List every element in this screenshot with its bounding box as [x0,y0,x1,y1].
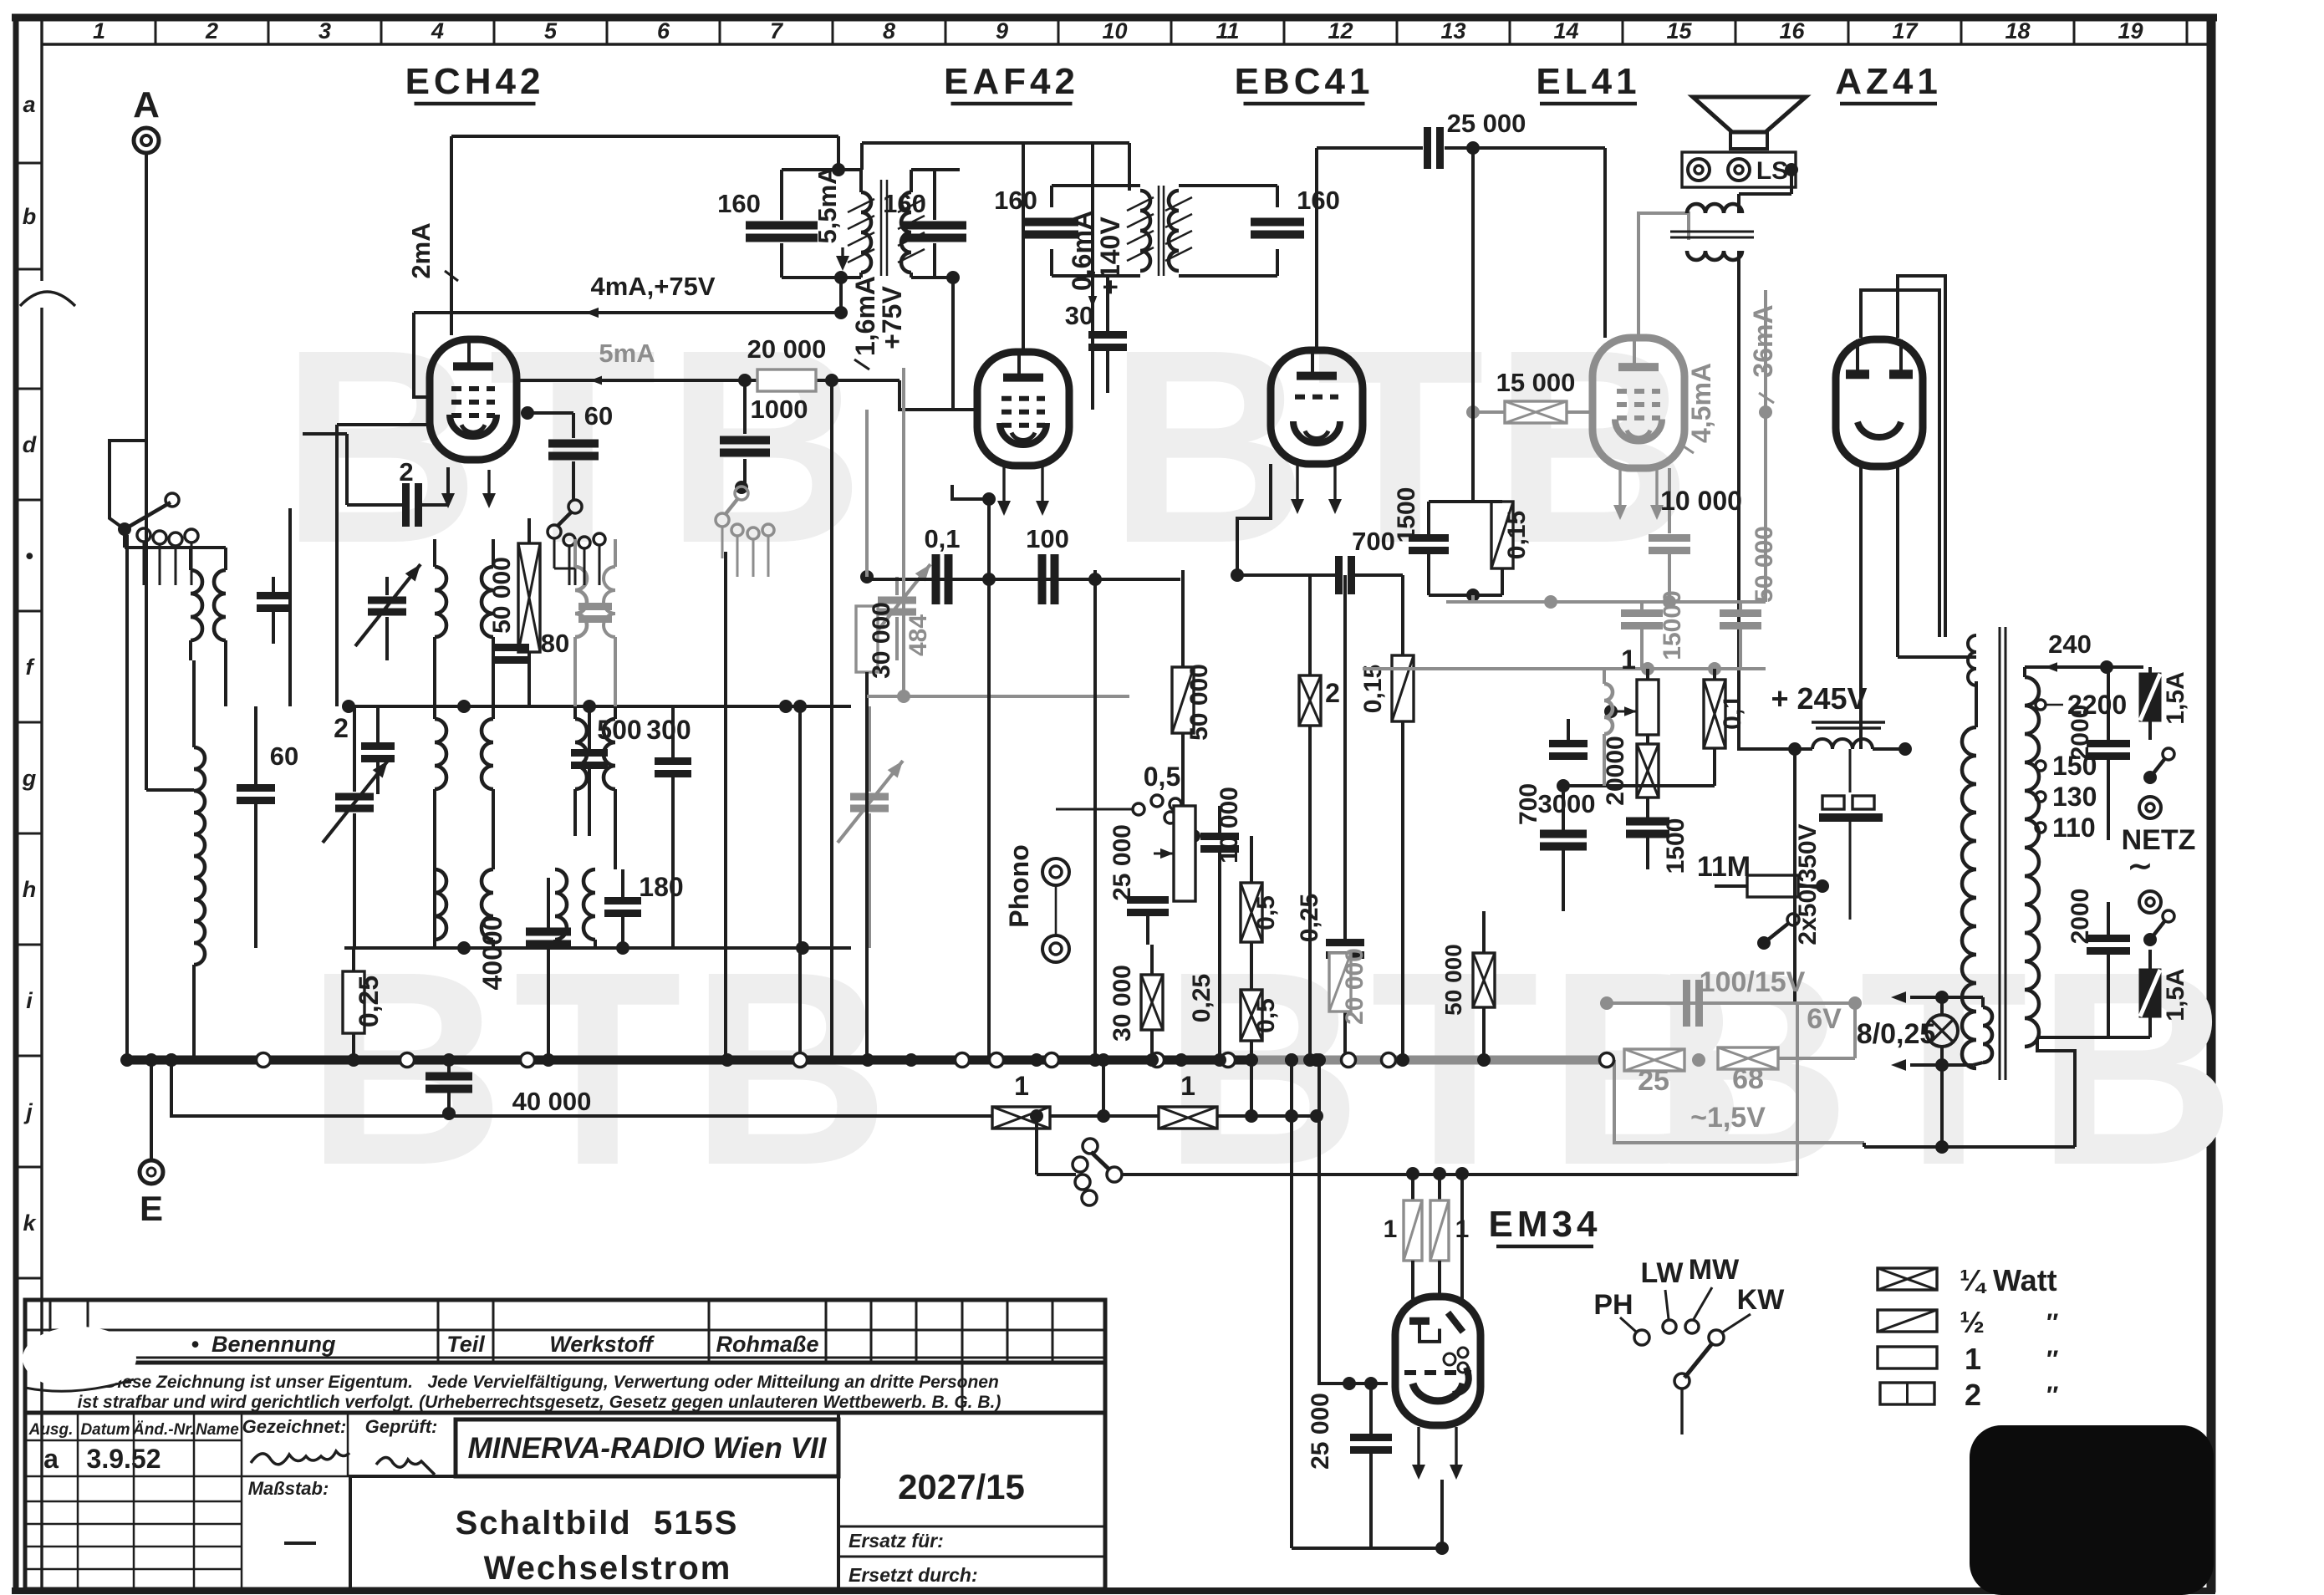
svg-text:Gezeichnet:: Gezeichnet: [242,1416,347,1437]
svg-text:Ersetzt durch:: Ersetzt durch: [849,1564,978,1586]
svg-text:2: 2 [205,18,218,43]
legend 1/2 Watt [1878,1305,2058,1339]
tube EBC41 label [1235,61,1374,104]
capacitor 0,1 [924,524,960,604]
band switch S1c [716,487,774,558]
EM34 feed resistors [1384,1167,1470,1299]
resistor 30000 af [1108,945,1216,1060]
svg-text:0,5: 0,5 [1252,895,1280,930]
svg-text:13: 13 [1440,18,1465,43]
svg-text:9: 9 [996,18,1008,43]
svg-text:d: d [23,432,37,457]
svg-text:A: A [133,84,160,125]
svg-text:E: E [140,1189,163,1228]
svg-text:Änd.-Nr.: Änd.-Nr. [132,1421,195,1439]
svg-text:Geprüft:: Geprüft: [365,1416,438,1437]
wire rail lower-left [344,941,851,955]
bus junction dot [1175,1053,1188,1067]
svg-text:4: 4 [431,18,444,43]
svg-text:5mA: 5mA [599,339,655,368]
capacitor 2000 b [2067,889,2130,1037]
svg-text:4,5mA: 4,5mA [1686,363,1716,443]
svg-text:0,1: 0,1 [1719,695,1746,730]
fuse 1,5A a [2140,667,2189,740]
resistor 68 [1692,1047,1855,1095]
svg-text:h: h [23,877,37,902]
power transformer primary [1962,681,1976,1068]
svg-text:LW: LW [1641,1257,1684,1289]
svg-text:Schaltbild 515S: Schaltbild 515S [456,1505,739,1541]
resistor 0,5 a [1241,836,1280,942]
svg-text:30: 30 [1065,301,1093,330]
capacitor 100/15V [1687,966,1806,1027]
capacitor 700 coupling [1231,527,1403,594]
resistor 50000 em [1440,911,1495,1060]
svg-text:1500: 1500 [1393,487,1420,543]
switch mains a [2143,748,2174,784]
svg-text:25 000: 25 000 [1447,109,1526,138]
V6 filament arrows [1412,1427,1463,1480]
capacitor 100 [1026,524,1069,604]
svg-text:130: 130 [2052,782,2097,812]
resistor 2 grid EBC [1299,575,1340,1060]
decorative watermark [1163,914,1755,1222]
capacitor 2x50/350V [1794,749,1883,945]
svg-text:EAF42: EAF42 [944,61,1079,102]
tube V2 EAF42 [977,352,1069,466]
bus junction dot [861,1053,874,1067]
capacitor 15000 EL [1621,590,1686,669]
wire v2112 [1759,290,1772,602]
resistor 0,5 b [1241,942,1280,1060]
switch S-wave bottom [1073,1139,1122,1205]
svg-text:1: 1 [1621,645,1636,675]
resistor 30000 agc [856,410,895,1060]
wire rail 682 [860,570,1180,586]
svg-text:2: 2 [399,457,413,487]
capacitor 50000 EL [1720,526,1778,669]
lamp wiring [1891,991,1973,1154]
svg-text:Maßstab:: Maßstab: [248,1478,329,1499]
bus junction dot [1396,1053,1409,1067]
svg-text:ist strafbar und wird gerichtl: ist strafbar und wird gerichtlich verfol… [78,1393,1001,1412]
svg-text:2027/15: 2027/15 [898,1467,1025,1506]
svg-text:BTB: BTB [306,914,898,1222]
svg-text:Rohmaße: Rohmaße [716,1332,818,1357]
svg-text:0,25: 0,25 [354,976,384,1027]
switch S-tone [1757,914,1799,950]
resistor 50000 osc [488,518,540,706]
decorative watermark [1108,292,1700,600]
svg-text:2mA: 2mA [406,222,436,278]
svg-text:″: ″ [2046,1346,2058,1373]
svg-text:18: 18 [2005,18,2030,43]
svg-text:160: 160 [883,189,926,218]
capacitor 40000 left [477,878,571,1060]
wire V3 top [1317,148,1423,350]
V2 filament arrows [997,466,1049,516]
svg-text:160: 160 [717,189,761,218]
band switch S1b [548,500,605,585]
bus junction dot [347,1053,360,1067]
wire rail 800 [1363,662,1766,675]
svg-text:50 000: 50 000 [488,557,516,634]
svg-text:0,1: 0,1 [924,524,960,553]
svg-text:1: 1 [93,18,105,43]
capacitor 40000 bus [426,1060,591,1120]
decorative watermark [306,914,898,1222]
tube EL41 label [1536,61,1640,104]
svg-text:240: 240 [2048,629,2092,659]
svg-text:15000: 15000 [1659,590,1686,660]
legend 1/4 Watt [1878,1263,2057,1297]
capacitor 160 T1-right [883,189,966,238]
switch stubs S1a [144,542,191,585]
svg-text:12: 12 [1328,18,1353,43]
svg-text:2: 2 [334,713,349,743]
svg-text:+75V: +75V [877,286,907,349]
svg-text:16: 16 [1779,18,1805,43]
bus junction [1382,1053,1396,1068]
svg-text:Ersatz für:: Ersatz für: [849,1530,944,1552]
potentiometer 0,5 volume [1144,762,1195,901]
svg-text:″: ″ [2046,1382,2058,1409]
svg-text:¼ Watt: ¼ Watt [1960,1263,2057,1297]
resistor 0,15 EBC [1359,575,1414,1060]
bus junction [1342,1053,1356,1068]
svg-text:5,5mA: 5,5mA [813,166,842,243]
resistor 20000 EL [1602,735,1659,806]
wire rail 833 [867,690,1129,703]
lamp coil [1973,997,1992,1065]
tube V1 ECH42 [430,339,517,460]
bus junction dot [1213,1053,1226,1067]
svg-text:180: 180 [639,872,683,902]
jack Phono [1004,844,1069,962]
switch mains b [2143,910,2174,946]
wire EBC cathode [1237,464,1271,575]
svg-text:80: 80 [541,629,569,658]
svg-text:i: i [26,988,33,1013]
svg-text:1500: 1500 [1662,818,1689,874]
capacitor 60 band [237,706,298,948]
bus junction dot [1303,1053,1317,1067]
resistor 20000 screen [747,334,827,391]
capacitor 3000 [1538,779,1715,911]
svg-text:3: 3 [319,18,331,43]
tube AZ41 label [1835,61,1942,104]
bus junction dot [442,1053,456,1067]
capacitor 25000 coupling [1428,109,1606,338]
trimmer band [323,706,388,948]
svg-text:2: 2 [1325,678,1340,708]
wire EL grid rail [1466,405,1594,419]
speaker transformer [1670,194,1795,749]
capacitor 2000 a [2067,667,2130,840]
svg-text:1: 1 [1180,1071,1195,1101]
svg-text:0,5: 0,5 [1144,762,1180,792]
capacitor 300 [646,706,691,948]
svg-text:10: 10 [1102,18,1127,43]
svg-text:11: 11 [1216,18,1239,43]
column ruler numbers 1-19 [93,18,2187,44]
label 36mA [1748,304,1778,403]
svg-text:1,5A: 1,5A [2162,671,2189,724]
resistor 1 heater b [1159,1071,1217,1129]
bus junction [521,1053,535,1068]
coil EL cathode [1604,669,1613,786]
svg-text:8: 8 [883,18,895,43]
wire v 1310 [1093,351,1095,1060]
svg-text:15 000: 15 000 [1496,368,1576,397]
svg-text:17: 17 [1892,18,1919,43]
band switch S1a [118,493,198,546]
coil L3 [435,706,493,948]
svg-text:Datum: Datum [80,1421,130,1439]
band selector legend [1593,1254,1785,1434]
antenna coil big [194,660,205,1060]
decorative watermark [1652,914,2244,1222]
svg-text:0,25: 0,25 [1188,974,1216,1022]
resistor 11M [1697,851,1829,897]
bus junction dot [165,1053,178,1067]
svg-text:36mA: 36mA [1748,304,1778,377]
trimmer C-osc 484 [865,564,932,660]
svg-text:40 000: 40 000 [512,1087,592,1116]
svg-text:MINERVA-RADIO Wien VII: MINERVA-RADIO Wien VII [468,1432,828,1465]
transformer heater lead [1898,655,1976,659]
svg-text:1: 1 [1384,1215,1398,1243]
wire V2 top [1022,143,1025,352]
capacitor 30 [1065,276,1127,393]
tube V6 EM34 [1395,1297,1481,1425]
wire 5mA [513,271,979,410]
label 80 cap [492,629,569,660]
svg-text:25 000: 25 000 [1307,1393,1334,1470]
wire tuner v2 [288,508,292,706]
svg-text:LS: LS [1756,157,1788,185]
svg-text:1,6mA: 1,6mA [850,276,880,356]
bus junction dot [905,1053,918,1067]
capacitor 160 T2-left [994,186,1078,235]
svg-text:8/0,25: 8/0,25 [1857,1018,1936,1050]
resistor 25 [1624,1049,1684,1097]
svg-text:KW: KW [1737,1284,1786,1316]
coil L4 [435,869,493,948]
V4 filament arrows [1613,468,1664,520]
bus junction [956,1053,970,1068]
svg-text:68: 68 [1732,1063,1764,1095]
resistor 20000 b [1329,948,1368,1025]
coil L6 [575,706,615,869]
tube EM34 label [1489,1204,1602,1246]
svg-text:0,15: 0,15 [1359,665,1387,713]
svg-text:MW: MW [1689,1254,1740,1286]
power transformer secondary [1968,635,2039,1047]
wire v 995 [830,380,833,1060]
svg-text:484: 484 [905,614,932,656]
decorative watermark [281,292,873,600]
svg-text:300: 300 [646,715,691,745]
svg-text:100: 100 [1026,524,1069,553]
wire EL anode [1639,213,1689,338]
wire rail 720 [1446,595,1766,609]
tap 110 [2036,813,2096,843]
svg-text:2000: 2000 [2067,705,2094,761]
bus junction dot [1285,1053,1298,1067]
capacitor 160 T2-right [1251,186,1340,235]
bus junction dot [1245,1053,1258,1067]
bus junction [1221,1053,1236,1068]
wire AZ anode b [1898,276,1945,637]
svg-text:20 000: 20 000 [747,334,827,364]
wire 1500 pair [1429,502,1502,604]
svg-text:k: k [23,1210,37,1236]
capacitor 180 [604,869,684,948]
svg-text:25: 25 [1638,1065,1669,1097]
label 5,5mA [813,166,849,271]
bus junction dot [542,1053,555,1067]
capacitor small [257,577,290,644]
bus junction dot [1310,1053,1323,1067]
bus junction [257,1053,271,1068]
svg-text:• Benennung: • Benennung [191,1332,336,1357]
svg-text:~1,5V: ~1,5V [1690,1102,1766,1134]
svg-text:160: 160 [994,186,1037,215]
svg-text:∼: ∼ [2128,848,2153,883]
svg-text:1: 1 [1965,1342,1981,1376]
svg-text:3.9.52: 3.9.52 [87,1444,161,1474]
capacitor 1000 [720,380,808,494]
tube V3 EBC41 [1271,350,1363,464]
svg-text:Teil: Teil [446,1332,485,1357]
IF transformer T1 [782,143,1129,278]
tube ECH42 label [405,61,545,104]
capacitor 500 [571,706,642,836]
svg-text:30 000: 30 000 [868,602,895,679]
black patch [1970,1425,2214,1595]
wire heater return [1588,1003,1864,1175]
svg-text:1000: 1000 [751,395,808,424]
capacitor 160 T1-left [717,189,818,238]
bus junction [1045,1053,1059,1068]
wire EL cathode [1668,468,1671,533]
svg-text:5: 5 [544,18,558,43]
svg-text:20 000: 20 000 [1341,948,1368,1025]
bus junction dot [1097,1053,1110,1067]
switch stubs S1c [737,536,768,577]
svg-text:6V: 6V [1807,1003,1842,1035]
svg-text:14: 14 [1553,18,1578,43]
svg-text:100/15V: 100/15V [1700,966,1806,998]
capacitor 10000 af [1200,787,1243,1060]
resistor 1 heater a [992,1071,1050,1129]
svg-text:Diese Zeichnung ist unser Eige: Diese Zeichnung ist unser Eigentum. Jede… [104,1373,999,1392]
svg-text:19: 19 [2118,18,2143,43]
fuse 1,5A b [2037,950,2189,1037]
svg-text:11M: 11M [1697,851,1751,883]
svg-text:50 000: 50 000 [1185,664,1213,741]
capacitor 10000 EL [1649,486,1742,602]
jack NETZ a [2139,797,2161,818]
svg-text:Ausg.: Ausg. [28,1421,74,1439]
resistor 0,1 EL [1704,669,1746,786]
svg-text:PH: PH [1593,1289,1633,1321]
IF transformer T2 [1052,186,1277,276]
svg-text:″: ″ [2046,1309,2058,1337]
svg-text:15: 15 [1666,18,1692,43]
svg-text:b: b [23,204,37,229]
svg-text:1: 1 [1014,1071,1029,1101]
svg-text:25 000: 25 000 [1108,824,1136,901]
wire antenna [110,153,194,790]
capacitor 1500 [1393,487,1449,595]
wire rail mid-left [342,700,851,713]
svg-text:EL41: EL41 [1536,61,1640,102]
dial lamp 8/0,25 [1857,1015,1958,1050]
label ~1,5V [1690,1102,1766,1134]
node E terminal [140,1160,163,1228]
jack NETZ b [2139,891,2161,913]
resistor 0,25 agc [343,948,384,1060]
capacitor 700 EL [1515,719,1588,825]
svg-text:4mA,+75V: 4mA,+75V [590,272,715,301]
legend 2 Watt [1880,1378,2058,1412]
svg-text:a: a [23,92,35,117]
svg-text:2000: 2000 [2067,889,2094,945]
wire v2147 [1793,749,1797,1003]
wire AZ anode a [1861,290,1939,637]
svg-text:+ 245V: + 245V [1771,681,1867,716]
wire v1762 [1466,141,1480,502]
bus junction dot [1088,1053,1102,1067]
svg-text:60: 60 [270,741,298,771]
svg-text:60: 60 [584,401,613,431]
V1 filament arrows [441,470,496,508]
wire heater run [165,1053,1323,1123]
svg-text:30 000: 30 000 [1108,965,1136,1042]
title block [23,1300,1105,1589]
bus junction [990,1053,1004,1068]
svg-text:50 000: 50 000 [1751,526,1778,603]
wire v 957 [793,700,807,1060]
wire switch rail [0,0,1,1]
svg-text:1,5A: 1,5A [2162,968,2189,1021]
tap 130 [2036,782,2097,812]
tap 2200 [2036,690,2127,720]
svg-text:EM34: EM34 [1489,1204,1602,1245]
svg-text:½: ½ [1960,1305,1985,1339]
svg-text:110: 110 [2052,813,2096,843]
wire v2180 [0,0,1,1]
wire heater gray [1600,996,1862,1010]
capacitor 60 [521,401,613,500]
wire 0,6mA [1067,144,1125,351]
bus junction dot [1477,1053,1491,1067]
tube V5 AZ41 [1836,339,1923,466]
potentiometer 1 [1604,645,1659,735]
bus junction [400,1053,415,1068]
bus junction dot [721,1053,734,1067]
switch stubs S1b [569,545,599,585]
svg-text:40000: 40000 [477,916,507,991]
svg-text:2x50/350V: 2x50/350V [1794,823,1822,945]
svg-text:2: 2 [1965,1378,1981,1412]
label 1,6mA +75V [850,276,907,369]
label NETZ [2122,824,2196,883]
svg-text:700: 700 [1515,783,1542,825]
node A terminal [133,84,160,153]
